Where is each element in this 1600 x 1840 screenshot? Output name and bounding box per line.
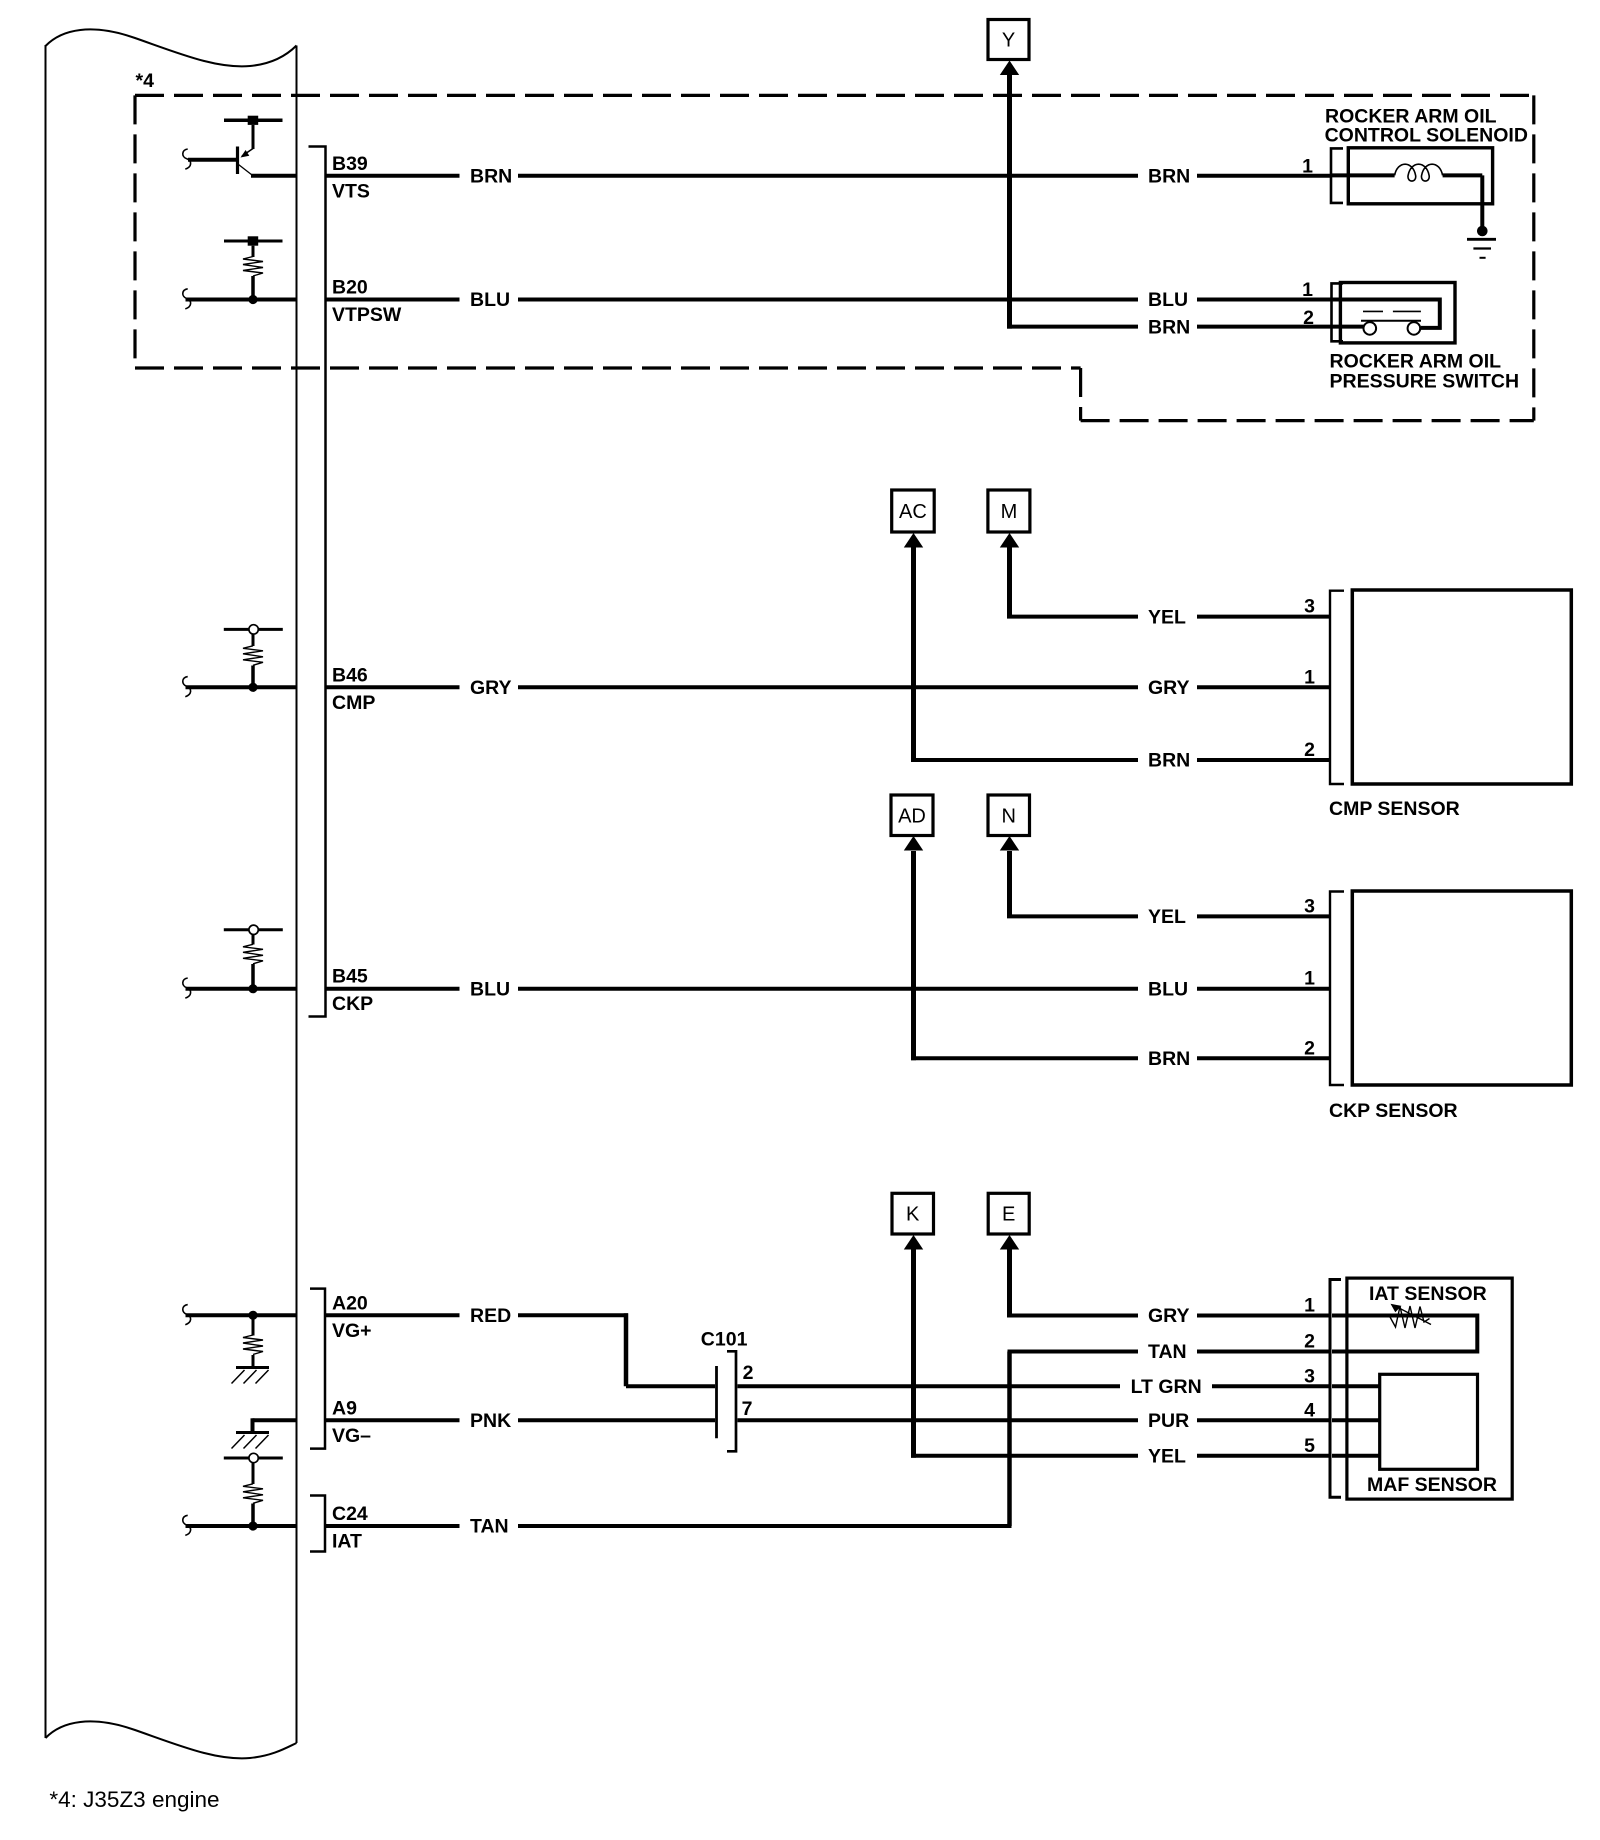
svg-text:B46: B46 [332,664,368,686]
svg-text:VG+: VG+ [332,1320,372,1342]
svg-text:IAT: IAT [332,1531,362,1553]
svg-text:2: 2 [1303,307,1314,329]
svg-text:2: 2 [1304,1331,1315,1353]
svg-text:CMP SENSOR: CMP SENSOR [1329,798,1460,820]
svg-text:TAN: TAN [1148,1341,1187,1363]
svg-text:C24: C24 [332,1503,368,1525]
svg-text:1: 1 [1304,1295,1315,1317]
svg-text:E: E [1002,1204,1015,1226]
svg-text:BRN: BRN [470,166,512,188]
svg-text:*4: J35Z3 engine: *4: J35Z3 engine [49,1787,219,1812]
svg-text:BRN: BRN [1148,316,1190,338]
svg-text:Y: Y [1002,30,1015,52]
svg-text:1: 1 [1302,279,1313,301]
svg-text:1: 1 [1304,666,1315,688]
svg-text:RED: RED [470,1305,511,1327]
svg-text:5: 5 [1304,1435,1315,1457]
svg-text:M: M [1001,501,1018,523]
svg-text:B39: B39 [332,153,368,175]
svg-text:2: 2 [743,1362,754,1384]
svg-text:3: 3 [1304,1365,1315,1387]
svg-text:A20: A20 [332,1292,368,1314]
svg-text:3: 3 [1304,596,1315,618]
svg-text:MAF SENSOR: MAF SENSOR [1367,1474,1497,1496]
svg-text:N: N [1001,805,1015,827]
svg-text:BRN: BRN [1148,1048,1190,1070]
svg-text:LT GRN: LT GRN [1131,1376,1202,1398]
svg-text:YEL: YEL [1148,606,1186,628]
svg-text:VG–: VG– [332,1425,371,1447]
svg-text:3: 3 [1304,895,1315,917]
svg-text:B45: B45 [332,966,368,988]
svg-text:A9: A9 [332,1397,357,1419]
svg-text:7: 7 [742,1398,753,1420]
svg-text:IAT SENSOR: IAT SENSOR [1369,1283,1487,1305]
svg-text:BLU: BLU [1148,289,1188,311]
svg-text:TAN: TAN [470,1516,509,1538]
svg-text:BRN: BRN [1148,750,1190,772]
svg-text:YEL: YEL [1148,1446,1186,1468]
svg-text:C101: C101 [701,1328,748,1350]
svg-text:BLU: BLU [1148,978,1188,1000]
svg-text:VTS: VTS [332,180,370,202]
svg-text:VTPSW: VTPSW [332,304,402,326]
svg-text:CMP: CMP [332,692,375,714]
svg-text:CKP: CKP [332,993,373,1015]
svg-text:B20: B20 [332,277,368,299]
svg-text:YEL: YEL [1148,906,1186,928]
svg-text:4: 4 [1304,1399,1315,1421]
svg-text:BLU: BLU [470,289,510,311]
svg-text:2: 2 [1304,739,1315,761]
svg-text:ROCKER ARM OIL: ROCKER ARM OIL [1330,350,1502,372]
svg-text:PRESSURE SWITCH: PRESSURE SWITCH [1330,371,1520,393]
svg-text:AC: AC [899,501,927,523]
svg-text:K: K [906,1204,920,1226]
svg-text:1: 1 [1304,968,1315,990]
svg-text:1: 1 [1302,156,1313,178]
svg-text:PNK: PNK [470,1410,511,1432]
svg-text:GRY: GRY [470,677,512,699]
svg-text:BLU: BLU [470,978,510,1000]
svg-text:CKP SENSOR: CKP SENSOR [1329,1100,1458,1122]
svg-text:2: 2 [1304,1037,1315,1059]
svg-text:PUR: PUR [1148,1410,1189,1432]
svg-text:BRN: BRN [1148,166,1190,188]
svg-text:CONTROL SOLENOID: CONTROL SOLENOID [1325,125,1528,147]
svg-text:AD: AD [898,805,926,827]
svg-text:GRY: GRY [1148,677,1190,699]
svg-text:*4: *4 [136,70,155,92]
svg-text:GRY: GRY [1148,1305,1190,1327]
